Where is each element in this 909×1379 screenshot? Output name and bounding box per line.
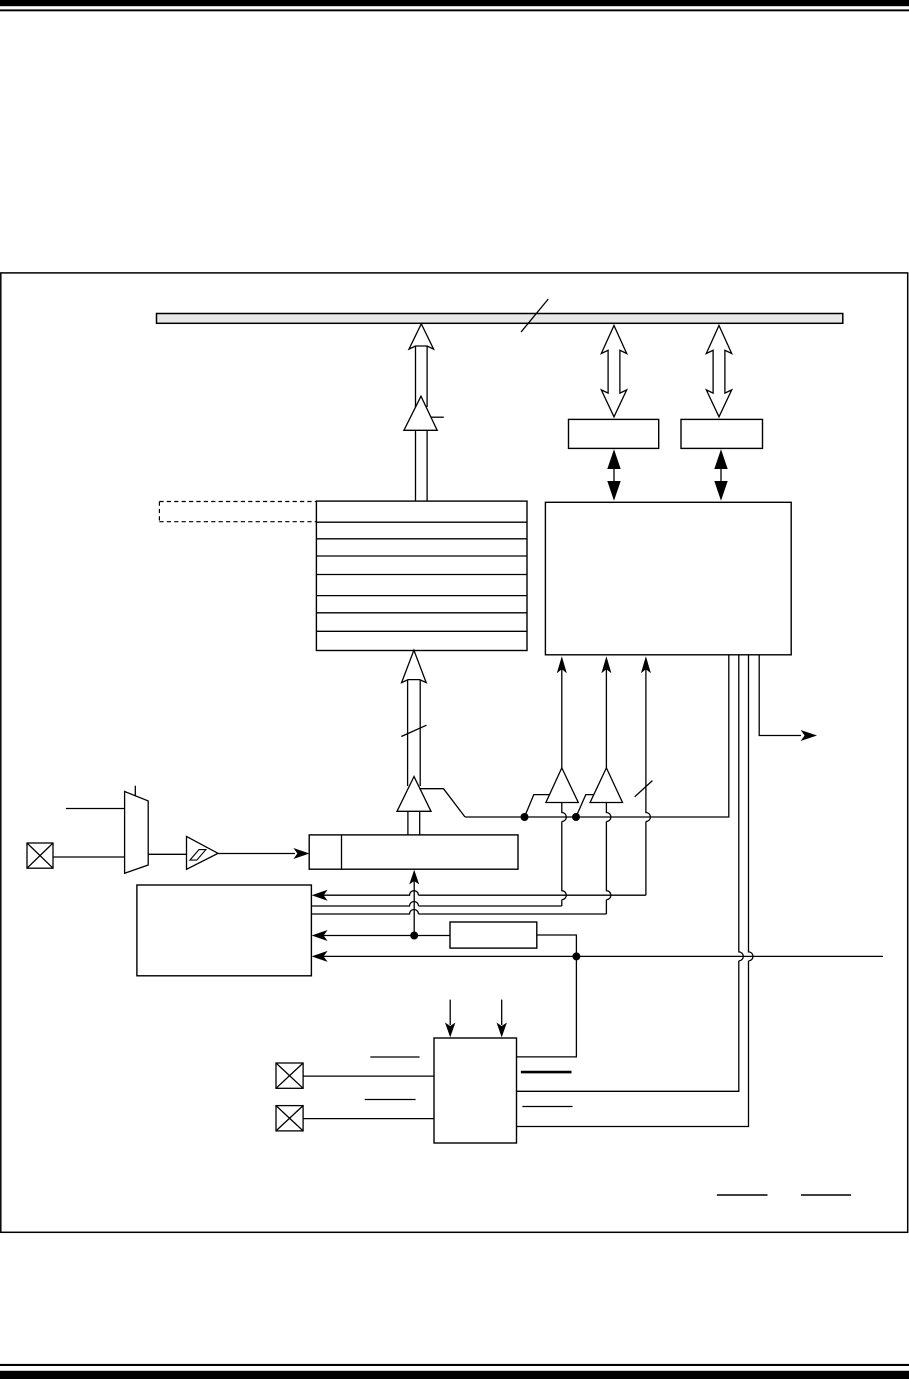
wire ICAP1 pin to edge detect [303, 1075, 434, 1077]
ST7 internal bus bar [157, 314, 843, 324]
wire mux to synchronizer [148, 853, 186, 855]
latch2 buffer triangle [590, 768, 622, 803]
ICF1 label overbar bold [521, 1071, 572, 1074]
ICAP1 select wire [449, 1000, 451, 1025]
ICAP2 label overbar [365, 1099, 416, 1101]
wire A arrowhead into compare block [312, 890, 328, 901]
wire internal clock to mux [66, 808, 125, 810]
synchronizer schmitt buffer [187, 836, 219, 869]
data bus driver buffer triangle [404, 396, 437, 430]
wire A compare enable net [316, 891, 646, 896]
latch enable wire (horizontal net at y=817) [465, 655, 729, 817]
edge detect circuit block [434, 1038, 517, 1143]
mux select tick [134, 786, 136, 797]
note label overbar left [717, 1194, 768, 1196]
timer interrupt wire [759, 655, 801, 736]
top page rule thick [0, 0, 909, 6]
top page rule thin [0, 9, 909, 11]
compare wire width slash [635, 781, 653, 797]
wire from control block down-left branch 2 [517, 655, 754, 1127]
dashed highlight around first register row [159, 502, 316, 522]
hollow double arrow bus to CR [601, 326, 626, 417]
counter prescaler divider line [341, 835, 343, 869]
control/status register box right (SR) [681, 419, 763, 448]
latch1 buffer triangle [546, 768, 578, 803]
schmitt hysteresis glyph [190, 850, 206, 861]
counter bus shaft upper (wire) [407, 680, 409, 786]
bottom page rule thick [0, 1371, 909, 1379]
latch1 arrowhead into control block [557, 656, 567, 673]
timer register file block [316, 501, 527, 650]
output compare circuit block [137, 885, 312, 976]
note label overbar right [801, 1194, 851, 1196]
control/status register box left (CR) [569, 419, 659, 448]
node junction dot latch2 [572, 813, 580, 821]
overflow detect circuit box [450, 922, 537, 948]
latch1 output wire up to control block [562, 666, 567, 906]
ICAP1 pin symbol [276, 1063, 303, 1088]
bus width slash [521, 299, 548, 332]
counter bus width slash [401, 725, 426, 736]
counter bus shaft lower (wire) [407, 811, 409, 835]
ICAP2 select arrowhead [497, 1023, 507, 1038]
register file row lines [316, 522, 527, 631]
solid double arrow SR to control block [714, 449, 727, 469]
latch2 arrowhead into control block [601, 656, 611, 673]
node junction dot counter clear net [572, 952, 580, 960]
wire EXTCLK pin to mux [53, 856, 125, 858]
wire B latch1 net [311, 902, 561, 907]
wire ICAP2 pin to edge detect [303, 1118, 434, 1120]
counter reload arrowhead [409, 870, 419, 885]
16-bit free running counter block [309, 835, 518, 869]
data bus shaft lower (wire) [415, 430, 417, 501]
wire from control block down-left branch 1 [517, 655, 744, 1091]
bottom page rule thin [0, 1364, 909, 1366]
node junction dot on overflow net [410, 932, 418, 940]
ICAP2 pin symbol [276, 1106, 303, 1131]
counter bus driver buffer triangle [397, 777, 431, 812]
solid double arrow CR to control block [607, 449, 620, 469]
wire D overflow net left [316, 935, 450, 937]
EXTCLK pin symbol [27, 843, 53, 868]
ICAP1 select arrowhead [445, 1023, 455, 1038]
compare wire arrowhead into control block [641, 656, 651, 673]
hollow double arrow bus to SR [706, 326, 731, 417]
wire jog to latch2 buffer input [576, 795, 594, 817]
ICAP1 label overbar [370, 1056, 419, 1058]
wire jog to latch1 buffer input [525, 795, 550, 817]
data bus shaft upper (wire) [415, 346, 417, 408]
timer control logic block [545, 502, 791, 655]
buffer enable tick [431, 416, 444, 418]
counter bus hollow arrow head (counter to registers) [402, 650, 427, 682]
clock arrowhead into counter [293, 848, 309, 859]
buffer enable wire to latch line [420, 789, 465, 817]
counter reload wire [413, 878, 415, 936]
node junction dot latch1 [521, 813, 529, 821]
latch2 output wire up to control block [606, 666, 611, 914]
ICF2 label overbar [522, 1106, 572, 1108]
wire D arrowhead into compare block [312, 930, 328, 941]
wire C latch2 net [311, 910, 606, 915]
wire E counter clear net [316, 955, 883, 957]
ICAP2 select wire [501, 1000, 503, 1025]
clock select mux trapezoid [125, 792, 149, 874]
timer interrupt arrowhead [801, 730, 817, 741]
wire E arrowhead into compare block [312, 951, 328, 962]
compare result wire up to control block [646, 666, 651, 895]
wire overflow detect to counter clear net [517, 935, 577, 1057]
wire synchronizer to counter [218, 853, 295, 855]
figure frame [1, 273, 908, 1232]
bus interface hollow arrow head (data bus to ST7 bus) [409, 324, 434, 349]
